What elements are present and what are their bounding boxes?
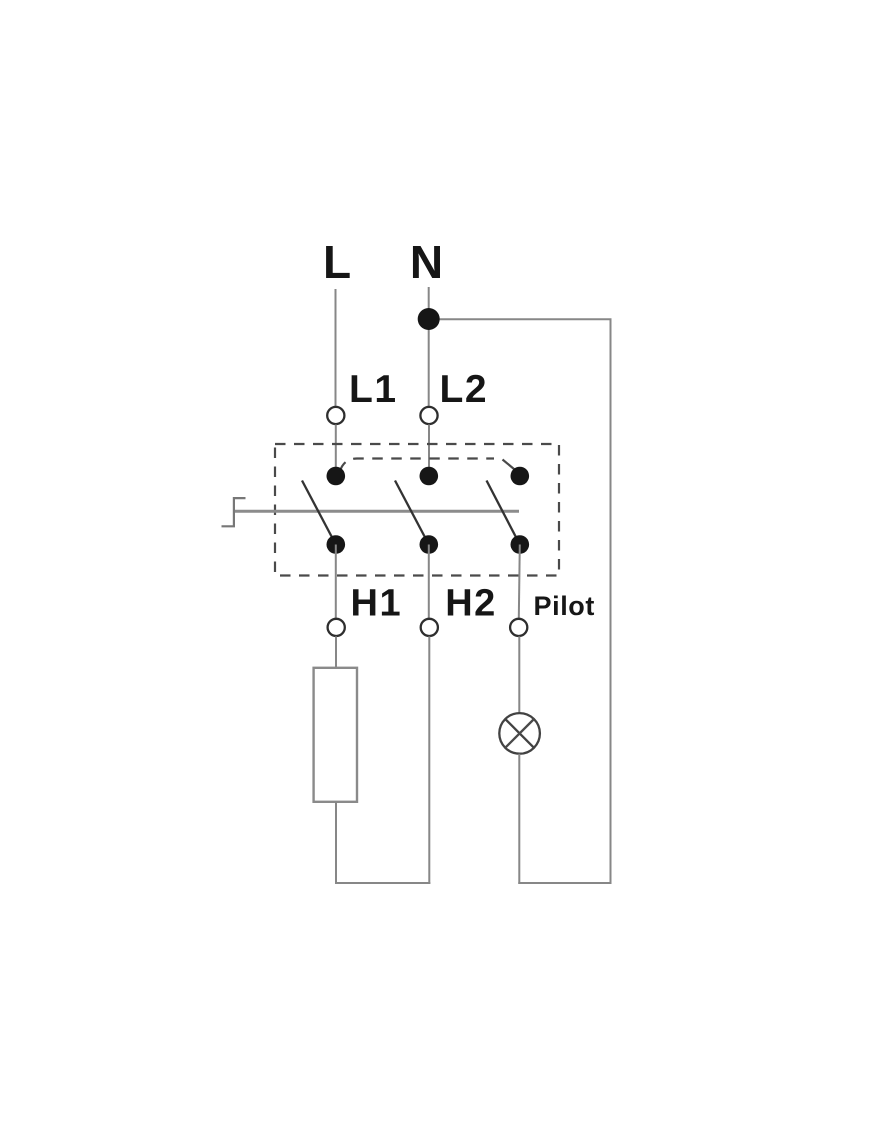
svg-text:L2: L2 [440,368,489,411]
wire bottom H1-H2 [335,882,430,884]
wire L2 to switch [428,425,430,477]
node N junction [418,308,440,330]
wire N junction to right rail [429,318,612,320]
svg-text:H2: H2 [445,583,497,625]
svg-text:Pilot: Pilot [534,591,596,621]
switch S1 blade [302,481,336,545]
switch S2 blade [395,481,429,545]
wire S2 to terminal H2 [428,545,430,619]
terminal Pilot [510,619,527,636]
switch S3 blade [487,481,520,545]
svg-text:N: N [410,236,443,288]
heating element H1 [314,668,357,802]
svg-text:H1: H1 [351,583,403,625]
actuator lever symbol [222,498,246,526]
switch S3 bottom contact [511,535,530,554]
wire terminal H1 to heater [335,636,337,668]
wire bottom Pilot to right rail [518,882,611,884]
wire N supply [428,287,430,407]
mechanical coupling (dashed link) [340,459,494,472]
wire right rail [610,319,612,883]
switch S3 top contact [511,467,530,486]
switch S2 top contact [420,467,439,486]
wire terminal Pilot to lamp [518,636,520,713]
terminal L2 [420,407,437,424]
svg-text:L: L [323,236,351,288]
wire S3 to terminal Pilot [519,545,520,619]
switch S1 bottom contact [327,535,346,554]
wire S1 to terminal H1 [335,545,337,619]
terminal H1 [328,619,345,636]
wire heater to bottom [335,802,337,884]
switch enclosure (dashed box) [275,444,559,576]
pilot lamp [499,713,540,754]
wire L1 to switch [335,425,337,477]
wire lamp to bottom [518,754,520,884]
mechanical coupling diagonal dash [503,460,518,472]
switch S2 bottom contact [420,535,439,554]
switch S1 top contact [327,467,346,486]
actuator bar [234,510,519,513]
terminal H2 [421,619,438,636]
svg-text:L1: L1 [349,368,398,411]
wire terminal H2 to bottom [428,636,430,884]
wire L supply [335,289,337,407]
terminal L1 [327,407,344,424]
